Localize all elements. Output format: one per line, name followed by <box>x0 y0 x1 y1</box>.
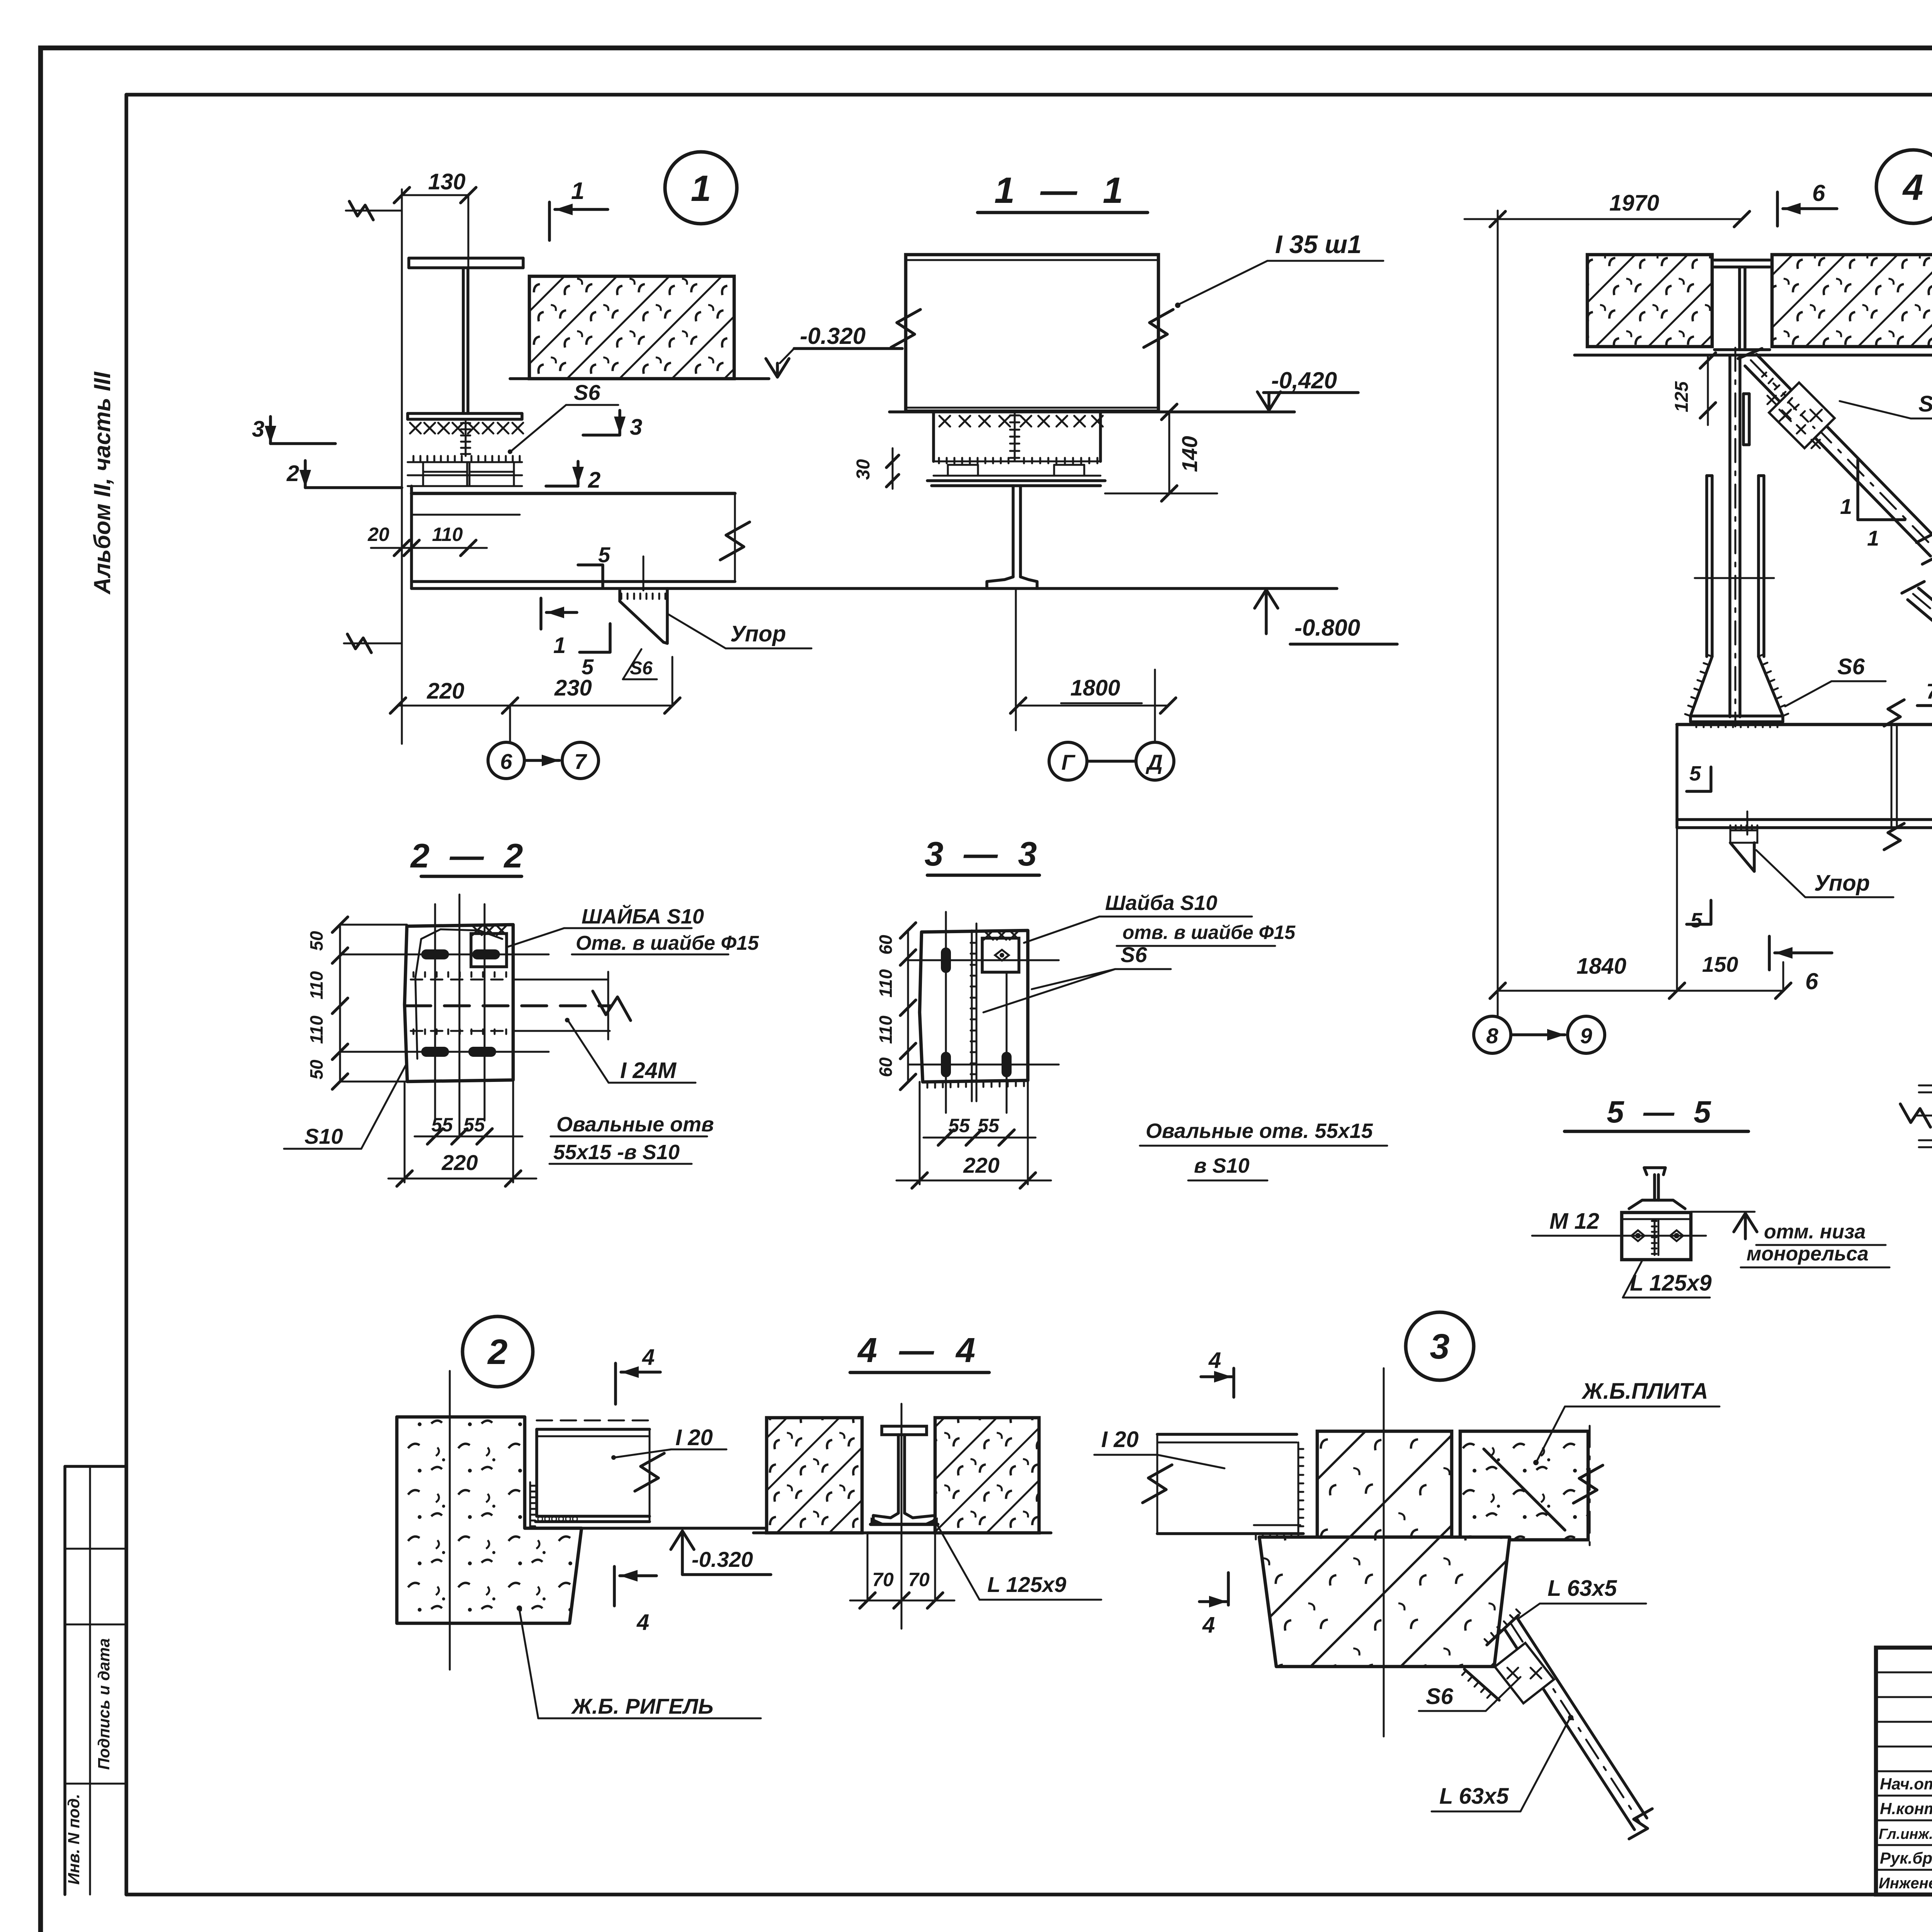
сечение 3-3 washer S10 (top right) <box>982 938 1019 972</box>
узел 4 weld x-marks along upper brace <box>1767 396 1776 404</box>
узел 4 упор stop angle <box>1747 811 1748 835</box>
узел 3 bearing plate on slab corner <box>1487 1615 1519 1645</box>
svg-text:Подпись и дата: Подпись и дата <box>95 1638 113 1770</box>
svg-text:60: 60 <box>876 935 896 955</box>
svg-text:S6: S6 <box>1918 391 1932 417</box>
узел 4 circle mark <box>1876 150 1932 223</box>
svg-text:Овальные отв: Овальные отв <box>556 1113 714 1136</box>
сечение 3-3 left dim 60/110/110/60 <box>907 930 909 1082</box>
узел 1 beam right break mark <box>734 493 736 582</box>
разрез 1-1 weld x-marks under girder <box>939 416 950 427</box>
сечение 2-2 plate inner contour <box>415 929 502 1059</box>
разрез 1-1 connection box <box>932 412 935 461</box>
узел 4 upper brace gusset with x-mark <box>1769 383 1835 448</box>
сечение 2-2 left dim line 50/110/110/50 <box>339 925 341 1082</box>
узел 2 seat bolt circles <box>538 1517 543 1521</box>
узел 4 column bracket plate <box>1742 394 1745 445</box>
узел 1 lower reference stub <box>344 643 402 645</box>
разрез 5-5 monorail rail <box>1644 1168 1665 1175</box>
узел 1 level -0.800 long line <box>412 587 1337 590</box>
узел 4 axis arrow 8 to 9 <box>1512 1033 1565 1036</box>
узел 4 concrete slab right <box>1772 255 1932 347</box>
узел 4 lower diagonal brace L63x5 <box>1908 600 1932 728</box>
svg-text:-0.320: -0.320 <box>800 323 866 349</box>
разрез 5-5 bolt axis line <box>1532 1235 1706 1237</box>
svg-text:5: 5 <box>1689 762 1701 785</box>
svg-text:55: 55 <box>431 1114 453 1136</box>
svg-text:140: 140 <box>1177 436 1202 472</box>
svg-text:I 24М: I 24М <box>620 1058 677 1083</box>
узел 3 diagonal brace L63x5 <box>1504 1629 1634 1830</box>
узел 1 axis circle 7 <box>562 742 599 779</box>
svg-text:S6: S6 <box>1121 942 1147 967</box>
svg-text:110: 110 <box>306 1015 327 1044</box>
узел 4 beam I24M <box>1677 723 1932 726</box>
разрез 1-1 monorail I-beam <box>1012 486 1015 577</box>
svg-text:Инв. N под.: Инв. N под. <box>65 1794 83 1884</box>
sheet inner frame left line <box>124 95 128 1895</box>
svg-text:110: 110 <box>306 971 327 1000</box>
узел 2 section mark 4 (top) <box>614 1363 617 1404</box>
узел 1 connection hatch ticks <box>413 456 415 461</box>
узел 4 axis circle 9 <box>1568 1016 1605 1053</box>
узел 3 slab lower trapezoid hatched <box>1259 1537 1510 1667</box>
svg-text:Альбом II, часть III: Альбом II, часть III <box>89 371 115 595</box>
сечение 2-2 bolt slots <box>421 949 449 959</box>
svg-text:5: 5 <box>598 543 611 567</box>
узел 3 beam I20 channel <box>1157 1433 1297 1436</box>
svg-text:отм. низа: отм. низа <box>1764 1221 1866 1243</box>
разрез 1-1 axis circle Г <box>1049 742 1087 780</box>
узел 1 axis circle 6 <box>488 742 524 779</box>
svg-text:30: 30 <box>853 459 874 480</box>
svg-text:3: 3 <box>630 415 642 440</box>
sheet inner frame top line <box>126 93 1932 97</box>
svg-text:20: 20 <box>367 524 389 545</box>
узел 4 upper diagonal brace L63x5 <box>1745 366 1930 556</box>
узел 4 hanger foot trapezoid <box>1690 656 1783 716</box>
svg-text:2: 2 <box>487 1332 507 1372</box>
сечение 3-3 bolt slots (vertical) <box>941 947 951 973</box>
узел 1 top reference stub <box>346 210 402 212</box>
узел 2 floor level line <box>536 1527 769 1530</box>
svg-text:9: 9 <box>1580 1024 1592 1048</box>
узел 2 beam I20 hidden top line <box>537 1420 650 1422</box>
узел 3 circle mark <box>1406 1312 1474 1380</box>
svg-text:I 20: I 20 <box>1101 1427 1139 1452</box>
svg-text:L 63х5: L 63х5 <box>1439 1784 1509 1809</box>
svg-text:-0.320: -0.320 <box>692 1547 753 1571</box>
узел 1 section mark 1 (top) <box>548 202 551 240</box>
разрез 4-4 center line <box>901 1404 903 1629</box>
svg-text:-0.800: -0.800 <box>1294 615 1360 641</box>
узел 4 upper brace end break slashes <box>1917 529 1932 543</box>
узел 3 section mark 4 (bottom) <box>1227 1573 1230 1605</box>
узел 4 slab soffit line <box>1575 354 1932 357</box>
разрез 1-1 axis line Г-Д <box>1088 760 1135 763</box>
svg-text:ШАЙБА S10: ШАЙБА S10 <box>582 904 704 928</box>
узел 1 connection weld x-marks <box>410 423 421 434</box>
узел 1 packing plates <box>408 461 522 463</box>
узел 3 center axis line <box>1383 1368 1385 1736</box>
svg-text:55: 55 <box>978 1115 1000 1136</box>
svg-text:Овальные отв. 55х15: Овальные отв. 55х15 <box>1146 1119 1373 1143</box>
svg-text:1: 1 <box>553 633 566 658</box>
сечение 2-2 slot center lines horizontal <box>340 954 549 956</box>
svg-text:6: 6 <box>500 749 512 774</box>
разрез 1-1 girder rectangle <box>906 255 1158 411</box>
svg-text:3: 3 <box>252 417 264 442</box>
узел 2 beam I20 channel <box>537 1428 650 1431</box>
svg-text:55: 55 <box>463 1114 485 1136</box>
svg-text:1840: 1840 <box>1577 954 1626 979</box>
sheet inner frame bottom line <box>126 1893 1932 1896</box>
svg-text:7: 7 <box>1926 679 1932 703</box>
svg-text:Упор: Упор <box>1814 871 1870 896</box>
svg-text:2: 2 <box>588 468 600 493</box>
узел 1 column top plate <box>409 257 523 260</box>
svg-text:50: 50 <box>306 1060 327 1080</box>
сечение 2-2 washer S10 (top right) <box>471 934 507 967</box>
узел 1 column web <box>462 268 465 413</box>
svg-text:110: 110 <box>432 524 463 545</box>
svg-text:1: 1 <box>691 168 711 209</box>
разрез 4-4 right concrete block <box>935 1418 1039 1533</box>
svg-text:220: 220 <box>441 1150 478 1175</box>
svg-text:Упор: Упор <box>730 621 786 646</box>
svg-text:-0,420: -0,420 <box>1271 367 1337 393</box>
title block outline <box>1876 1648 1932 1895</box>
узел 4 beam splice <box>1891 724 1893 828</box>
svg-text:1: 1 <box>1840 494 1852 519</box>
разрез 5-5 angle box L125x9 <box>1622 1213 1691 1260</box>
svg-text:50: 50 <box>306 931 327 951</box>
узел 1 axis line to circle 6 <box>509 706 511 742</box>
svg-text:1: 1 <box>1867 526 1879 550</box>
сечение 2-2 hidden flange dashes in plate <box>411 979 510 981</box>
узел 4 left long dimension line <box>1497 211 1499 1016</box>
svg-text:S6: S6 <box>1426 1684 1454 1709</box>
svg-text:Гл.инж.пр.: Гл.инж.пр. <box>1879 1826 1932 1842</box>
узел 1 column web extension line <box>468 195 469 268</box>
svg-text:8: 8 <box>1486 1024 1498 1048</box>
left margin stamp table <box>65 1465 126 1468</box>
svg-text:4: 4 <box>636 1610 649 1635</box>
узел 2 column axis line <box>449 1371 451 1670</box>
узел 3 gap verticals <box>1451 1431 1453 1539</box>
узел 1 connection top plate <box>408 412 522 415</box>
svg-text:70: 70 <box>908 1569 930 1590</box>
узел 2 angle seat vertical leg <box>529 1482 531 1528</box>
узел 1 beam I24M top flange <box>412 492 735 495</box>
узел 1 connection web stub with ticks <box>465 419 467 456</box>
svg-text:Д: Д <box>1146 750 1163 774</box>
svg-text:4: 4 <box>1208 1348 1221 1373</box>
узел 3 angle seat right <box>1298 1442 1299 1534</box>
сечение 3-3 plate <box>920 930 1028 1082</box>
узел 1 section mark 2 (right) <box>577 461 580 485</box>
разрез 5-5 monorail bottom level mark <box>1691 1211 1755 1213</box>
svg-text:L 125х9: L 125х9 <box>987 1572 1066 1597</box>
svg-text:230: 230 <box>554 675 592 701</box>
svg-text:5: 5 <box>1690 909 1702 932</box>
svg-text:Н.контр.: Н.контр. <box>1880 1799 1932 1818</box>
узел 3 right concrete block <box>1460 1431 1588 1540</box>
svg-text:S6: S6 <box>1837 654 1865 679</box>
узел 1 dim 130 line <box>402 194 468 196</box>
сечение 3-3 middle joint <box>971 930 973 1101</box>
svg-text:3: 3 <box>1430 1327 1449 1366</box>
узел 4 column I-beam head <box>1714 259 1770 262</box>
svg-text:130: 130 <box>428 169 466 194</box>
svg-text:5 — 5: 5 — 5 <box>1607 1095 1716 1129</box>
узел 1 slab soffit line <box>510 377 769 380</box>
svg-text:110: 110 <box>876 969 896 998</box>
сечение 3-3 weld ticks bottom <box>927 1082 929 1088</box>
узел 4 section mark 6 (bottom) <box>1768 936 1771 970</box>
svg-text:150: 150 <box>1702 952 1738 976</box>
svg-text:в S10: в S10 <box>1194 1154 1250 1177</box>
узел 4 axis circle 8 <box>1474 1016 1511 1053</box>
svg-text:1: 1 <box>571 178 584 204</box>
svg-text:Инженер: Инженер <box>1879 1875 1932 1892</box>
разрез 4-4 floor line <box>753 1531 1051 1534</box>
узел 1 dim 20/110 line <box>371 547 487 549</box>
узел 3 brace gusset <box>1495 1643 1554 1703</box>
svg-text:Ж.Б.ПЛИТА: Ж.Б.ПЛИТА <box>1581 1379 1708 1404</box>
svg-text:I 35 ш1: I 35 ш1 <box>1275 230 1362 259</box>
svg-text:4: 4 <box>642 1345 655 1370</box>
узел 1 упор stop angle <box>643 556 645 590</box>
svg-text:3 — 3: 3 — 3 <box>925 835 1043 873</box>
узел 1 section mark 1 (bottom) <box>539 598 543 629</box>
svg-text:220: 220 <box>427 679 464 704</box>
svg-text:S10: S10 <box>304 1124 343 1148</box>
svg-text:4: 4 <box>1202 1612 1215 1638</box>
svg-text:110: 110 <box>876 1015 896 1044</box>
title block staff table rows <box>1876 1672 1932 1673</box>
разрез 1-1 girder soffit level line <box>889 410 1294 413</box>
узел 1 beam I24M bottom flange <box>412 580 735 583</box>
узел 3 slab upper part hatched <box>1317 1431 1452 1537</box>
svg-text:Г: Г <box>1061 750 1076 774</box>
svg-text:Нач.отд.: Нач.отд. <box>1880 1775 1932 1793</box>
сечение 3-3 center lines <box>945 912 947 1113</box>
узел 1 left vertical dimension line <box>401 189 403 744</box>
svg-text:1970: 1970 <box>1609 190 1659 216</box>
svg-text:монорельса: монорельса <box>1747 1243 1869 1265</box>
svg-text:Ж.Б. РИГЕЛЬ: Ж.Б. РИГЕЛЬ <box>571 1694 713 1718</box>
узел 1 axis arrow 6 to 7 <box>526 759 560 762</box>
сечение 2-2 plate <box>405 925 513 1082</box>
svg-text:220: 220 <box>963 1153 999 1177</box>
svg-text:6: 6 <box>1805 968 1818 994</box>
разрез 1-1 packing plates <box>934 461 1100 463</box>
svg-text:М 12: М 12 <box>1549 1209 1599 1234</box>
узел 2 level -0.320 <box>671 1531 694 1549</box>
узел 4 column hanger plates <box>1705 476 1708 656</box>
svg-text:L 63х5: L 63х5 <box>1548 1576 1617 1601</box>
разрез 4-4 seat plate <box>867 1531 941 1534</box>
svg-text:4 — 4: 4 — 4 <box>857 1331 981 1370</box>
svg-text:L 125х9: L 125х9 <box>1630 1270 1712 1296</box>
svg-text:1800: 1800 <box>1070 675 1120 701</box>
разрез 7-7 beam flange lines <box>1919 1085 1932 1087</box>
svg-text:2: 2 <box>286 461 299 486</box>
сечение 2-2 slot center lines vertical <box>434 904 436 1121</box>
разрез 1-1 connection web stub <box>1014 412 1016 461</box>
svg-text:55х15 -в S10: 55х15 -в S10 <box>553 1141 680 1164</box>
узел 1 circle mark <box>665 152 737 224</box>
svg-text:отв. в шайбе Ф15: отв. в шайбе Ф15 <box>1122 922 1296 943</box>
svg-text:7: 7 <box>574 749 587 774</box>
разрез 4-4 left concrete block <box>767 1418 862 1533</box>
svg-text:4: 4 <box>1902 167 1923 208</box>
svg-text:S6: S6 <box>574 380 600 405</box>
узел 4 concrete slab left <box>1587 255 1712 347</box>
разрез 1-1 monorail axis line <box>1015 588 1017 730</box>
разрез 1-1 level -0.800 <box>1255 590 1278 608</box>
svg-text:I 20: I 20 <box>675 1425 713 1450</box>
разрез 1-1 connection hatch ticks <box>938 458 940 463</box>
узел 1 section mark 3 (right) <box>618 410 621 434</box>
разрез 5-5 bolts <box>1631 1230 1645 1241</box>
узел 3 right axis dash line <box>1589 1426 1591 1552</box>
svg-text:Рук.бр.: Рук.бр. <box>1880 1849 1932 1867</box>
узел 1 concrete slab hatched <box>529 276 734 379</box>
svg-text:1 — 1: 1 — 1 <box>994 170 1131 211</box>
svg-text:125: 125 <box>1672 381 1692 412</box>
svg-text:2 — 2: 2 — 2 <box>410 837 529 875</box>
узел 2 concrete column with corbel <box>397 1417 582 1623</box>
разрез 1-1 dim 140 (rotated) <box>1168 412 1170 493</box>
svg-text:Шайба S10: Шайба S10 <box>1105 891 1217 915</box>
svg-text:70: 70 <box>872 1569 894 1590</box>
узел 2 section mark 4 (bottom) <box>613 1566 616 1606</box>
разрез 1-1 monorail top plate <box>927 479 1105 482</box>
svg-text:Отв. в шайбе Ф15: Отв. в шайбе Ф15 <box>576 932 759 954</box>
разрез 1-1 axis circle Д <box>1136 742 1174 780</box>
узел 2 circle mark <box>463 1316 533 1387</box>
svg-text:6: 6 <box>1812 180 1825 206</box>
сечение 2-2 beam flange lines <box>513 979 608 981</box>
svg-text:60: 60 <box>876 1057 896 1077</box>
разрез 4-4 I-beam I20 cross-section <box>882 1426 927 1435</box>
узел 4 section mark 6 (top) <box>1776 192 1779 226</box>
узел 1 beam I24M left end <box>410 486 413 588</box>
разрез 1-1 girder break marks <box>891 310 920 347</box>
узел 4 column inner stem <box>1728 355 1731 717</box>
